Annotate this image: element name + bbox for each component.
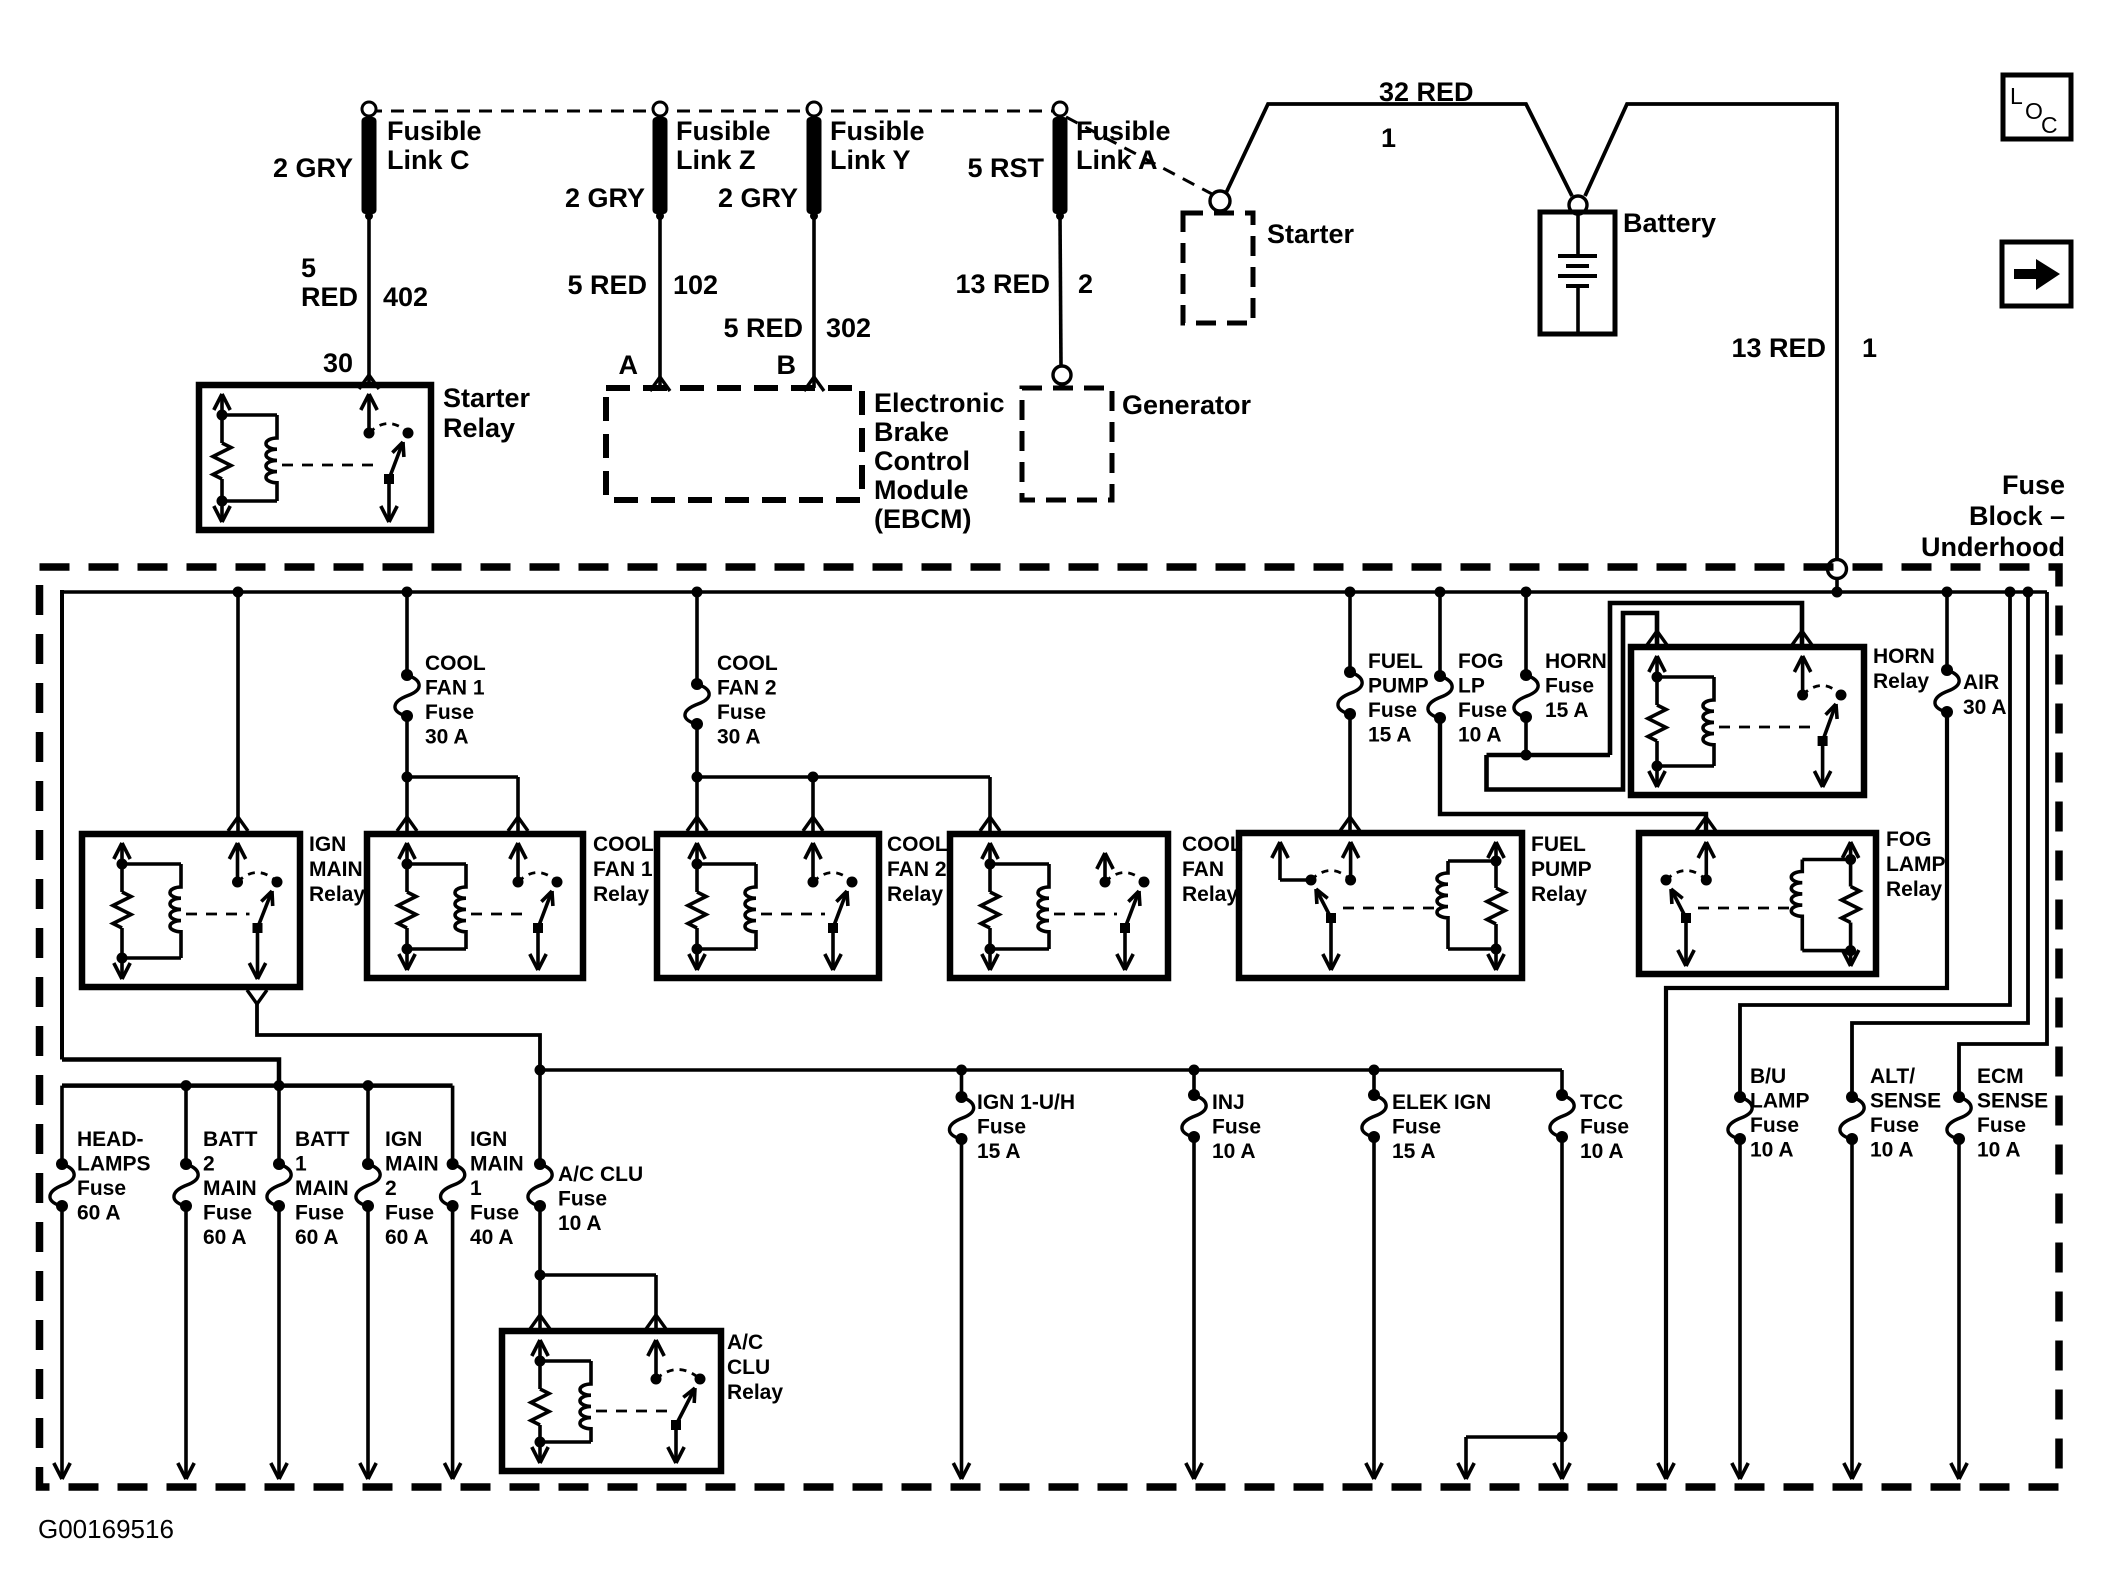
wire: HORN fuse out <box>1524 717 1528 755</box>
node: bus junction (COOL FAN 2 fuse) <box>692 587 703 598</box>
wire: drop to A/C CLU fuse <box>538 1070 542 1164</box>
svg-text:Fuse: Fuse <box>977 1116 1026 1139</box>
wire: switched bus <box>540 1068 1562 1072</box>
module: Generator dashed box <box>1022 388 1112 500</box>
fuse: FUEL PUMP Fuse 15 A <box>1344 666 1356 678</box>
svg-text:60 A: 60 A <box>77 1202 121 1225</box>
fuse: FOG LP Fuse 10 A <box>1434 670 1446 682</box>
battery: cell symbol <box>1576 214 1580 256</box>
svg-text:FAN 1: FAN 1 <box>593 858 653 881</box>
svg-text:CLU: CLU <box>727 1356 770 1379</box>
svg-text:AIR: AIR <box>1963 671 1999 694</box>
svg-text:Fuse: Fuse <box>1392 1116 1441 1139</box>
fuse: A/C CLU Fuse 10 A <box>534 1158 546 1170</box>
svg-text:COOL: COOL <box>425 652 486 675</box>
wire: bus to FUEL PUMP fuse <box>1348 592 1352 672</box>
icon: arrow box <box>2002 242 2071 306</box>
svg-text:MAIN: MAIN <box>309 858 363 881</box>
node: junction (BATT 2 fuse) <box>181 1080 192 1091</box>
svg-text:2: 2 <box>203 1153 215 1176</box>
svg-text:Fuse: Fuse <box>558 1188 607 1211</box>
svg-text:HORN: HORN <box>1873 645 1935 668</box>
svg-text:Fuse: Fuse <box>385 1202 434 1225</box>
module: Starter dashed box <box>1183 213 1253 323</box>
wire: INJ fuse output <box>1192 1137 1196 1479</box>
svg-text:Fuse: Fuse <box>295 1202 344 1225</box>
node: bus junction (AIR fuse) <box>1942 587 1953 598</box>
svg-text:60 A: 60 A <box>203 1226 247 1249</box>
svg-text:10 A: 10 A <box>1458 724 1502 747</box>
node: junction (A/C CLU feed) <box>535 1065 546 1076</box>
svg-text:FOG: FOG <box>1458 650 1504 673</box>
svg-text:SENSE: SENSE <box>1870 1090 1941 1113</box>
svg-text:LAMP: LAMP <box>1750 1090 1810 1113</box>
svg-text:Link Z: Link Z <box>676 145 756 175</box>
svg-text:A/C: A/C <box>727 1331 763 1354</box>
svg-text:402: 402 <box>383 282 428 312</box>
fuse: BATT 2 MAIN Fuse 60 A <box>180 1158 192 1170</box>
svg-text:Fuse: Fuse <box>203 1202 252 1225</box>
svg-text:Relay: Relay <box>1182 883 1238 906</box>
wire: main feed bus <box>62 590 2047 594</box>
node: bus junction (HORN fuse) <box>1521 587 1532 598</box>
wire: 5 RED 302 (link Y to EBCM pin B) <box>812 216 816 388</box>
svg-text:15 A: 15 A <box>977 1140 1021 1163</box>
wire: ECM SENSE feed <box>1959 592 2047 1097</box>
fuse: TCC Fuse 10 A <box>1556 1089 1568 1101</box>
svg-text:Fuse: Fuse <box>1977 1114 2026 1137</box>
battery: box <box>1540 212 1615 334</box>
svg-text:Fuse: Fuse <box>1458 699 1507 722</box>
wire: 13 RED entry stub <box>1835 578 1839 592</box>
node: bus junction (FOG LP fuse) <box>1435 587 1446 598</box>
svg-text:2: 2 <box>1078 269 1093 299</box>
node: junction (ELEK IGN fuse) <box>1369 1065 1380 1076</box>
wire: HORN fuse to relay coil <box>1487 613 1658 790</box>
wire: IGN MAIN relay output to switched bus <box>247 990 257 1004</box>
fuse: B/U LAMP Fuse 10 A <box>1734 1091 1746 1103</box>
node: junction (INJ fuse) <box>1189 1065 1200 1076</box>
fusible link A <box>1053 102 1067 116</box>
svg-text:A: A <box>619 350 639 380</box>
wire: drop to TCC fuse <box>1560 1070 1564 1095</box>
wire: FUEL PUMP fuse to relay <box>1348 714 1352 833</box>
svg-text:Fusible: Fusible <box>830 116 925 146</box>
node: junction (A/C CLU fuse out) <box>535 1270 546 1281</box>
svg-text:COOL: COOL <box>717 652 778 675</box>
svg-text:1: 1 <box>295 1153 307 1176</box>
svg-text:10 A: 10 A <box>1977 1139 2021 1162</box>
svg-text:MAIN: MAIN <box>385 1153 439 1176</box>
wire: dashed drop to starter stud <box>1066 117 1212 194</box>
relay: A/C CLU Relay <box>502 1331 721 1471</box>
svg-text:IGN: IGN <box>309 833 346 856</box>
svg-text:1: 1 <box>470 1177 482 1200</box>
fuse: ECM SENSE Fuse 10 A <box>1953 1091 1965 1103</box>
fuse: BATT 1 MAIN Fuse 60 A <box>273 1158 285 1170</box>
svg-text:Fusible: Fusible <box>676 116 771 146</box>
relay: IGN MAIN Relay <box>82 834 300 987</box>
wire: bus drop to HEAD-LAMPS fuse <box>60 1086 64 1164</box>
node: junction (CF2 relay switch tap) <box>808 772 819 783</box>
svg-text:302: 302 <box>826 313 871 343</box>
svg-text:A/C CLU: A/C CLU <box>558 1163 643 1186</box>
node: junction (BATT 1 fuse) <box>274 1080 285 1091</box>
fuse: ELEK IGN Fuse 15 A <box>1368 1089 1380 1101</box>
node: fuse block feed terminal <box>1828 560 1847 579</box>
relay: FUEL PUMP Relay <box>1239 833 1522 978</box>
module: EBCM dashed box <box>606 388 862 500</box>
node: bus junction (13 RED) <box>1832 587 1843 598</box>
svg-text:TCC: TCC <box>1580 1091 1623 1114</box>
wire: drop to BATT 1 fuse <box>277 1086 281 1164</box>
wire: drop to INJ fuse <box>1192 1070 1196 1095</box>
svg-text:FAN 2: FAN 2 <box>717 677 777 700</box>
fuse block: dashed outline <box>40 567 2060 1487</box>
svg-text:10 A: 10 A <box>1212 1140 1256 1163</box>
wire: headlamp bus feed <box>62 1060 279 1086</box>
svg-text:ALT/: ALT/ <box>1870 1065 1915 1088</box>
svg-text:Control: Control <box>874 446 970 476</box>
node: junction (TCC output split) <box>1557 1432 1568 1443</box>
svg-text:Relay: Relay <box>1873 670 1929 693</box>
svg-text:INJ: INJ <box>1212 1091 1245 1114</box>
svg-text:32 RED: 32 RED <box>1379 77 1474 107</box>
svg-text:Fuse: Fuse <box>1545 675 1594 698</box>
wire: dashed feed bus at top <box>369 110 1060 113</box>
svg-text:5: 5 <box>301 253 316 283</box>
svg-text:Fuse: Fuse <box>1212 1116 1261 1139</box>
svg-text:Relay: Relay <box>727 1381 783 1404</box>
svg-text:Electronic: Electronic <box>874 388 1005 418</box>
svg-text:10 A: 10 A <box>1750 1139 1794 1162</box>
svg-text:Fuse: Fuse <box>2002 470 2065 500</box>
fuse: IGN MAIN 2 Fuse 60 A <box>362 1158 374 1170</box>
relay: COOL FAN Relay <box>950 834 1168 978</box>
wire: HORN fuse to relay switch <box>1610 603 1802 755</box>
wire: drop to IGN MAIN 1 fuse <box>451 1086 455 1164</box>
svg-text:10 A: 10 A <box>1870 1139 1914 1162</box>
svg-text:30 A: 30 A <box>717 726 761 749</box>
svg-text:Relay: Relay <box>1531 883 1587 906</box>
svg-text:30: 30 <box>323 348 353 378</box>
node: bus junction (FUEL PUMP fuse) <box>1345 587 1356 598</box>
wire: HEAD-LAMPS fuse output <box>60 1206 64 1479</box>
svg-text:Brake: Brake <box>874 417 949 447</box>
svg-text:60 A: 60 A <box>295 1226 339 1249</box>
svg-text:Fuse: Fuse <box>1580 1116 1629 1139</box>
fusible link Z <box>653 102 667 116</box>
wire: ALT/SENSE feed <box>1852 592 2028 1097</box>
svg-text:13 RED: 13 RED <box>1731 333 1826 363</box>
svg-text:SENSE: SENSE <box>1977 1090 2048 1113</box>
svg-text:IGN: IGN <box>385 1128 422 1151</box>
svg-text:Fuse: Fuse <box>425 701 474 724</box>
svg-text:BATT: BATT <box>203 1128 258 1151</box>
node: starter stud <box>1210 191 1230 211</box>
svg-text:BATT: BATT <box>295 1128 350 1151</box>
node: battery positive stud <box>1569 196 1587 214</box>
svg-text:MAIN: MAIN <box>203 1177 257 1200</box>
svg-text:5 RED: 5 RED <box>567 270 647 300</box>
wire: IGN 1-U/H fuse output <box>960 1139 964 1479</box>
wire: AIR fuse output to bottom <box>1666 712 1947 1479</box>
svg-text:15 A: 15 A <box>1368 724 1412 747</box>
fuse: COOL FAN 2 Fuse 30 A <box>691 678 703 690</box>
svg-text:Link A: Link A <box>1076 145 1158 175</box>
wire: 13 RED 2 (link A to generator) <box>1060 216 1061 366</box>
wire: bus to AIR fuse <box>1945 592 1949 670</box>
svg-text:HEAD-: HEAD- <box>77 1128 144 1151</box>
svg-text:10 A: 10 A <box>1580 1140 1624 1163</box>
fuse: HEAD-LAMPS Fuse 60 A <box>56 1158 68 1170</box>
svg-text:FAN 1: FAN 1 <box>425 677 485 700</box>
wire: ECM SENSE fuse output <box>1957 1139 1961 1479</box>
wire: BATT 1 fuse output <box>277 1206 281 1479</box>
wire: left feed drop <box>60 590 64 1060</box>
svg-text:B/U: B/U <box>1750 1065 1786 1088</box>
node: junction (IGN 1-U/H fuse) <box>956 1065 967 1076</box>
wire: 32 RED (starter to battery) <box>1226 104 1572 196</box>
wire: IGN MAIN 1 fuse output <box>451 1206 455 1479</box>
node: junction (CF1 fuse out) <box>402 772 413 783</box>
fuse: HORN Fuse 15 A <box>1520 669 1532 681</box>
wire: B/U LAMP feed <box>1740 592 2010 1097</box>
svg-text:Link C: Link C <box>387 145 470 175</box>
svg-text:IGN: IGN <box>470 1128 507 1151</box>
svg-text:10 A: 10 A <box>558 1212 602 1235</box>
svg-text:Fuse: Fuse <box>717 701 766 724</box>
svg-text:40 A: 40 A <box>470 1226 514 1249</box>
relay: HORN Relay <box>1631 647 1864 795</box>
svg-text:COOL: COOL <box>593 833 654 856</box>
wire: TCC fuse output <box>1560 1137 1564 1479</box>
svg-text:Module: Module <box>874 475 969 505</box>
svg-text:LAMP: LAMP <box>1886 853 1946 876</box>
svg-text:Link Y: Link Y <box>830 145 911 175</box>
icon: LOC box <box>2003 75 2071 139</box>
wire: bus to FOG LP fuse <box>1438 592 1442 676</box>
fuse: IGN MAIN 1 Fuse 40 A <box>447 1158 459 1170</box>
wire: B/U LAMP fuse output <box>1738 1139 1742 1479</box>
svg-text:30 A: 30 A <box>1963 696 2007 719</box>
wire: 13 RED 1 (battery to fuse block) <box>1585 104 1837 559</box>
svg-text:2 GRY: 2 GRY <box>273 153 353 183</box>
svg-text:Starter: Starter <box>443 383 531 413</box>
svg-text:60 A: 60 A <box>385 1226 429 1249</box>
wire: COOL FAN 1 fuse to relay pins <box>405 716 409 777</box>
svg-text:Generator: Generator <box>1122 390 1252 420</box>
svg-text:C: C <box>2041 112 2058 138</box>
node: bus junction (IGN MAIN) <box>233 587 244 598</box>
svg-text:COOL: COOL <box>1182 833 1243 856</box>
svg-text:FOG: FOG <box>1886 828 1932 851</box>
svg-text:Relay: Relay <box>443 413 515 443</box>
svg-text:Fusible: Fusible <box>1076 116 1171 146</box>
wire: ALT/SENSE fuse output <box>1850 1139 1854 1479</box>
svg-text:2 GRY: 2 GRY <box>565 183 645 213</box>
node: junction (HORN fuse out) <box>1521 750 1532 761</box>
svg-text:1: 1 <box>1381 123 1396 153</box>
relay: COOL FAN 2 Relay <box>657 834 879 978</box>
wire: COOL FAN 2 fuse to relay pins <box>695 724 699 777</box>
wire: drop to BATT 2 fuse <box>184 1086 188 1164</box>
relay: Starter Relay <box>199 385 431 530</box>
svg-text:Fuse: Fuse <box>1368 699 1417 722</box>
fuse: AIR Fuse 30 A <box>1941 664 1953 676</box>
svg-text:MAIN: MAIN <box>470 1153 524 1176</box>
svg-text:5 RST: 5 RST <box>967 153 1044 183</box>
svg-text:IGN 1-U/H: IGN 1-U/H <box>977 1091 1075 1114</box>
svg-text:Relay: Relay <box>1886 878 1942 901</box>
svg-text:(EBCM): (EBCM) <box>874 504 971 534</box>
wire: 5 RED 402 (link C to starter relay) <box>367 216 371 385</box>
wire: headlamp fuse bus <box>62 1083 453 1088</box>
svg-text:Fuse: Fuse <box>77 1177 126 1200</box>
svg-text:ELEK IGN: ELEK IGN <box>1392 1091 1491 1114</box>
svg-text:15 A: 15 A <box>1545 699 1589 722</box>
svg-text:L: L <box>2010 83 2023 109</box>
svg-text:LAMPS: LAMPS <box>77 1153 151 1176</box>
node: bus junction (B/U feed) <box>2005 587 2016 598</box>
svg-text:Relay: Relay <box>309 883 365 906</box>
svg-text:COOL: COOL <box>887 833 948 856</box>
svg-text:HORN: HORN <box>1545 650 1607 673</box>
svg-text:Relay: Relay <box>887 883 943 906</box>
relay: FOG LAMP Relay <box>1639 833 1876 974</box>
wire: bus to HORN fuse <box>1524 592 1528 675</box>
svg-text:102: 102 <box>673 270 718 300</box>
svg-text:G00169516: G00169516 <box>38 1514 174 1544</box>
node: generator terminal <box>1053 366 1071 384</box>
svg-text:2 GRY: 2 GRY <box>718 183 798 213</box>
svg-text:Fuse: Fuse <box>1750 1114 1799 1137</box>
svg-text:1: 1 <box>1862 333 1877 363</box>
svg-text:B: B <box>777 350 797 380</box>
wire: bus to IGN MAIN relay switch <box>236 592 240 834</box>
fuse: IGN 1-U/H Fuse 15 A <box>956 1091 968 1103</box>
svg-text:Battery: Battery <box>1623 208 1716 238</box>
wire: drop to IGN MAIN 2 fuse <box>366 1086 370 1164</box>
svg-text:Fusible: Fusible <box>387 116 482 146</box>
svg-text:13 RED: 13 RED <box>955 269 1050 299</box>
svg-text:MAIN: MAIN <box>295 1177 349 1200</box>
svg-text:Fuse: Fuse <box>470 1202 519 1225</box>
svg-text:Fuse: Fuse <box>1870 1114 1919 1137</box>
wire: 5 RED 102 (link Z to EBCM pin A) <box>658 216 662 388</box>
wire: BATT 2 fuse output <box>184 1206 188 1479</box>
fusible link C <box>362 102 376 116</box>
svg-text:2: 2 <box>385 1177 397 1200</box>
svg-text:ECM: ECM <box>1977 1065 2024 1088</box>
svg-text:Block –: Block – <box>1969 501 2065 531</box>
wire: A/C CLU fuse to relay <box>538 1206 542 1275</box>
fusible link Y <box>807 102 821 116</box>
svg-text:Relay: Relay <box>593 883 649 906</box>
svg-text:15 A: 15 A <box>1392 1140 1436 1163</box>
svg-text:FUEL: FUEL <box>1368 650 1423 673</box>
fuse: ALT/SENSE Fuse 10 A <box>1846 1091 1858 1103</box>
svg-text:LP: LP <box>1458 675 1485 698</box>
svg-text:Underhood: Underhood <box>1921 532 2065 562</box>
node: junction (IGN MAIN 2 fuse) <box>363 1080 374 1091</box>
svg-text:Starter: Starter <box>1267 219 1355 249</box>
node: bus junction (COOL FAN 1 fuse) <box>402 587 413 598</box>
relay: COOL FAN 1 Relay <box>367 834 583 978</box>
svg-text:5 RED: 5 RED <box>723 313 803 343</box>
wire: bus to COOL FAN 2 fuse <box>695 592 699 684</box>
wire: drop to ELEK IGN fuse <box>1372 1070 1376 1095</box>
fuse: COOL FAN 1 Fuse 30 A <box>401 669 413 681</box>
wire: ELEK IGN fuse output <box>1372 1137 1376 1479</box>
wire: IGN MAIN 2 fuse output <box>366 1206 370 1479</box>
wire: drop to IGN 1-U/H fuse <box>960 1070 964 1097</box>
wire: bus to COOL FAN 1 fuse <box>405 592 409 675</box>
svg-text:30 A: 30 A <box>425 726 469 749</box>
svg-text:PUMP: PUMP <box>1531 858 1592 881</box>
fuse: INJ Fuse 10 A <box>1188 1089 1200 1101</box>
svg-text:PUMP: PUMP <box>1368 675 1429 698</box>
wire: FOG LP fuse to FOG LAMP relay <box>1440 718 1706 833</box>
svg-text:FUEL: FUEL <box>1531 833 1586 856</box>
svg-text:FAN 2: FAN 2 <box>887 858 947 881</box>
node: bus junction (ALT feed) <box>2023 587 2034 598</box>
node: junction (CF2 fuse out) <box>692 772 703 783</box>
svg-text:RED: RED <box>301 282 358 312</box>
svg-text:FAN: FAN <box>1182 858 1224 881</box>
